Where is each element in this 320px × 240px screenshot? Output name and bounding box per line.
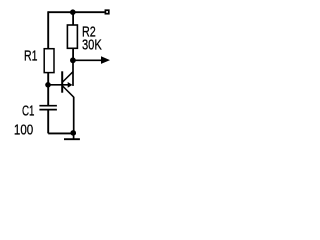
- capacitor C1 bottom plate: [39, 109, 57, 111]
- svg-text:C1: C1: [22, 104, 35, 120]
- wire B1 vertical: [73, 97, 75, 133]
- wire R1 bottom lead: [47, 73, 49, 85]
- resistor R2: [67, 25, 77, 48]
- wire output horizontal: [73, 59, 102, 61]
- wire left vertical (rail to R1): [47, 11, 49, 48]
- wire R2 top lead: [72, 12, 74, 25]
- wire node to C1 top plate: [47, 85, 49, 106]
- transistor Q1 lower diagonal (B1): [62, 86, 74, 98]
- junction dot bottom rail: [70, 130, 76, 136]
- capacitor C1 top plate: [39, 105, 57, 107]
- wire bottom rail: [48, 132, 76, 134]
- transistor Q1 emitter arrowhead: [68, 82, 73, 88]
- ground bar: [64, 138, 80, 140]
- wire C1 to bottom rail: [47, 110, 49, 134]
- transistor Q1 base bar: [61, 71, 63, 92]
- svg-text:100: 100: [14, 123, 33, 139]
- terminal square top-right: [105, 10, 108, 14]
- wire B2 vertical: [72, 60, 74, 86]
- ground stub: [73, 133, 75, 139]
- svg-text:30K: 30K: [82, 38, 102, 54]
- junction dot output node: [70, 57, 76, 63]
- resistor R1: [44, 49, 54, 73]
- transistor Q1 upper diagonal (B2): [62, 72, 73, 83]
- output arrowhead: [101, 56, 110, 64]
- wire emitter horizontal: [48, 84, 68, 86]
- junction dot top rail at R2: [70, 9, 76, 15]
- wire top supply rail: [48, 11, 104, 13]
- wire R2 bottom lead: [72, 48, 74, 60]
- svg-text:R1: R1: [24, 49, 38, 65]
- junction dot emitter node: [45, 82, 51, 88]
